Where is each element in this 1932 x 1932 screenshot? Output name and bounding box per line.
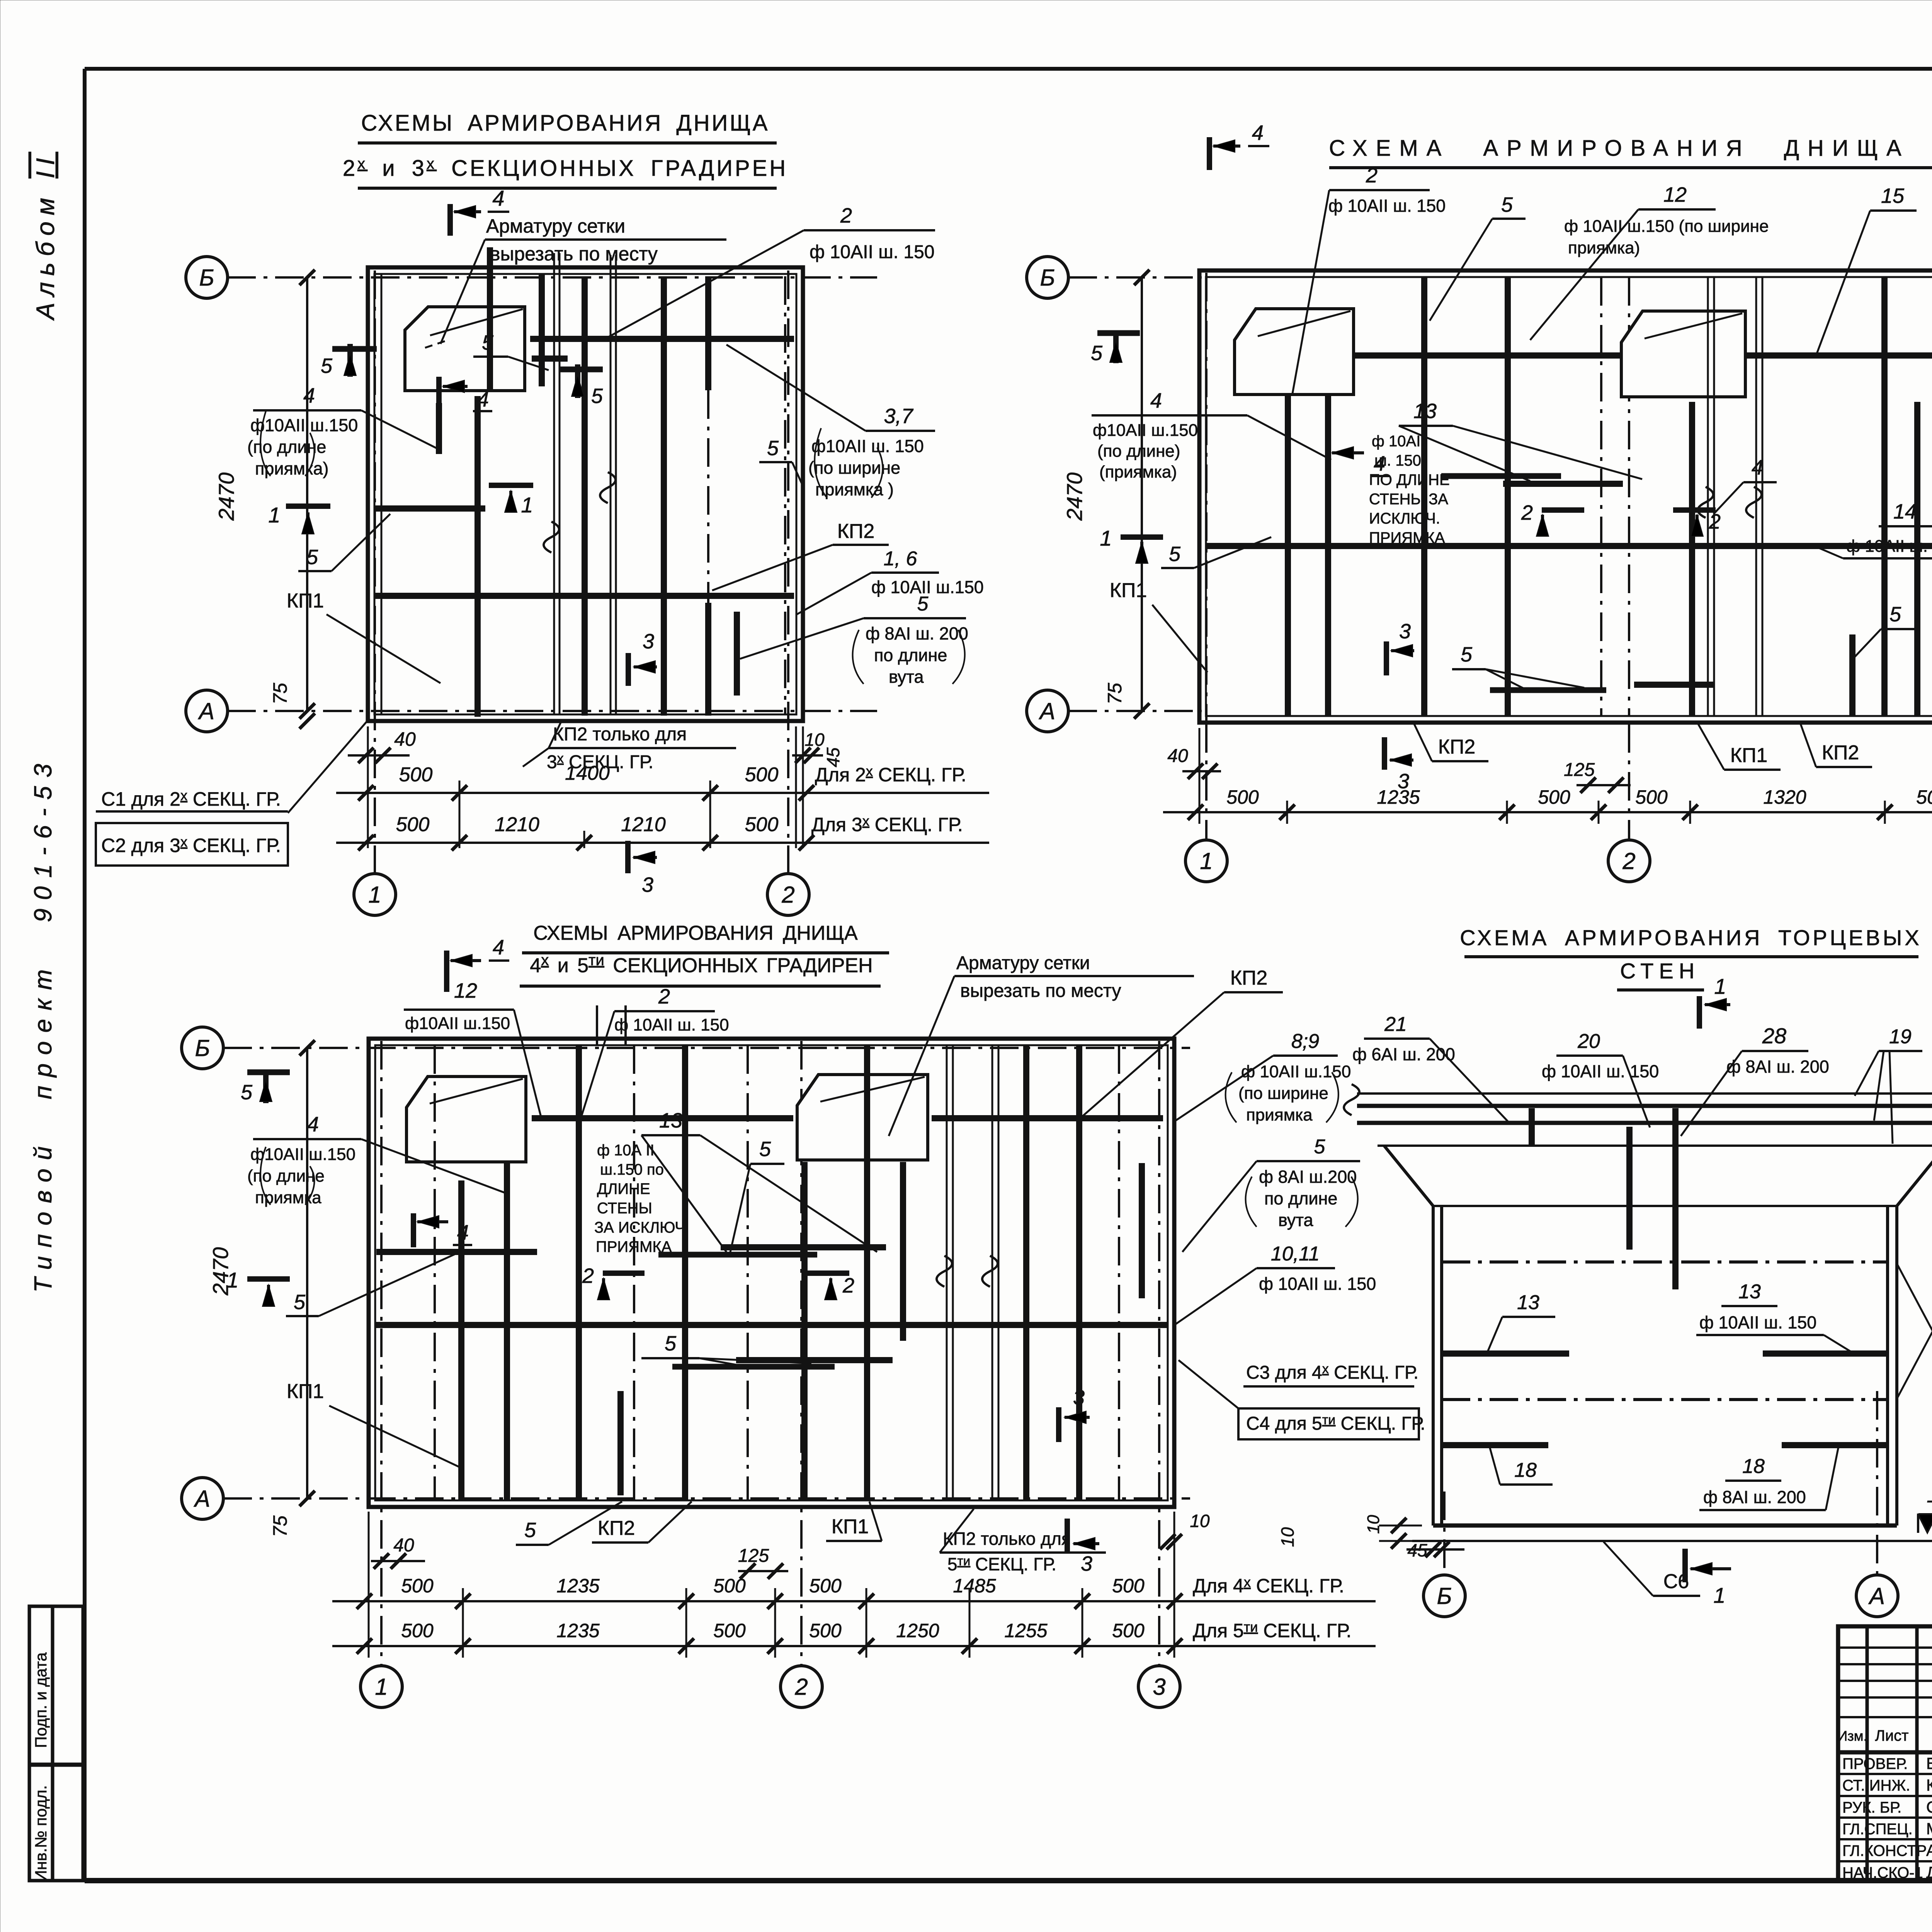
svg-text:21: 21 [1384, 1013, 1407, 1036]
diagram 4 section mark 1 top [1697, 996, 1702, 1029]
svg-text:500: 500 [745, 764, 779, 786]
diagram 1 mesh bar through pit [487, 247, 493, 389]
svg-text:ф10АII ш.150: ф10АII ш.150 [405, 1014, 510, 1033]
svg-text:4: 4 [493, 936, 504, 959]
svg-text:Б: Б [1437, 1583, 1452, 1609]
diagram 2 dim extension lines [1286, 801, 1288, 824]
diagram 2 grid line А [1068, 710, 1202, 712]
svg-text:ВОЛКОВА: ВОЛКОВА [1926, 1754, 1932, 1772]
diagram 4 grid bubble А [1856, 1575, 1898, 1617]
svg-text:2х и 3х СЕКЦИОННЫХ ГРАДИРЕН: 2х и 3х СЕКЦИОННЫХ ГРАДИРЕН [343, 155, 788, 181]
svg-text:1: 1 [521, 493, 533, 517]
svg-text:С3 для 4х СЕКЦ. ГР.: С3 для 4х СЕКЦ. ГР. [1246, 1362, 1418, 1383]
svg-text:4: 4 [307, 1113, 319, 1136]
svg-text:ф 10АII ш. 150: ф 10АII ш. 150 [1259, 1274, 1376, 1294]
diagram 3 plan outer wall [369, 1039, 1174, 1507]
diagram 2 grid bubble 1 [1185, 840, 1227, 882]
svg-text:приямка ): приямка ) [815, 480, 894, 499]
svg-text:15: 15 [1881, 184, 1905, 207]
svg-text:1210: 1210 [621, 813, 666, 836]
svg-text:12: 12 [1663, 183, 1687, 206]
svg-text:СХЕМА АРМИРОВАНИЯ ТОРЦЕВЫХ: СХЕМА АРМИРОВАНИЯ ТОРЦЕВЫХ [1460, 925, 1922, 950]
diagram 3 section mark 3 bottom [1065, 1519, 1070, 1553]
diagram 2 section mark 3 bottom [1382, 737, 1387, 770]
diagram 1 section mark 5 mid [575, 364, 580, 398]
svg-text:Инв.№ подл.: Инв.№ подл. [32, 1785, 50, 1882]
svg-text:2: 2 [582, 1264, 594, 1287]
svg-text:125: 125 [1564, 760, 1595, 780]
svg-text:10: 10 [1277, 1527, 1298, 1547]
svg-text:ф 8АI ш. 200: ф 8АI ш. 200 [866, 624, 968, 643]
diagram 1 section mark 5 left [347, 344, 353, 377]
svg-text:(по ширине: (по ширине [808, 458, 900, 478]
svg-text:13: 13 [1738, 1281, 1761, 1303]
svg-text:500: 500 [713, 1575, 746, 1597]
svg-text:Лист: Лист [1875, 1727, 1909, 1744]
svg-text:1: 1 [1713, 1583, 1725, 1607]
svg-text:ф 10АII ш. 150: ф 10АII ш. 150 [1542, 1061, 1659, 1081]
diagram 3 dim row Для 5ти [332, 1645, 1376, 1647]
svg-text:1255: 1255 [1004, 1620, 1047, 1641]
diagram 1 section mark 1 mid [489, 483, 533, 488]
svg-text:1: 1 [1200, 848, 1213, 874]
title block revision table verticals [1866, 1626, 1869, 1881]
svg-text:Для 4х СЕКЦ. ГР.: Для 4х СЕКЦ. ГР. [1193, 1574, 1344, 1597]
diagram 4 bottom slab [1433, 1524, 1897, 1528]
diagram 1 rebar horizontals [530, 336, 794, 342]
svg-text:КП2 только для: КП2 только для [943, 1529, 1071, 1549]
diagram 3 formwork dashdot verticals [434, 1045, 436, 1500]
svg-text:ИСКЛЮЧ.: ИСКЛЮЧ. [1369, 510, 1440, 527]
svg-text:ф 10АII ш. 150: ф 10АII ш. 150 [614, 1015, 729, 1034]
diagram 2 pit polygon 1 [1235, 309, 1354, 395]
diagram 3 section marks 2 [603, 1270, 645, 1276]
svg-text:ПРИЯМКА: ПРИЯМКА [596, 1238, 672, 1255]
diagram 1 grid line 1 [374, 270, 376, 873]
svg-text:4: 4 [1252, 121, 1264, 145]
svg-text:приямка: приямка [1246, 1105, 1313, 1124]
svg-text:5: 5 [767, 437, 779, 460]
svg-text:500: 500 [1226, 786, 1259, 808]
svg-text:500: 500 [401, 1620, 434, 1641]
svg-text:5: 5 [665, 1332, 677, 1355]
diagram 2 section marks 2 [1542, 507, 1584, 513]
diagram 2 dim row [1163, 811, 1932, 813]
svg-text:Для 3х СЕКЦ. ГР.: Для 3х СЕКЦ. ГР. [811, 813, 963, 835]
svg-text:75: 75 [1104, 683, 1126, 704]
diagram 3 grid line А [223, 1497, 1190, 1500]
svg-text:РУК. БР.: РУК. БР. [1842, 1799, 1901, 1816]
svg-text:10: 10 [1190, 1511, 1210, 1531]
svg-text:13: 13 [1413, 400, 1437, 423]
svg-text:4: 4 [303, 384, 315, 407]
svg-text:ф 10АII ш. 150: ф 10АII ш. 150 [810, 242, 935, 262]
svg-text:ф10АII ш. 150: ф10АII ш. 150 [811, 436, 924, 456]
svg-text:Арматуру сетки: Арматуру сетки [486, 215, 625, 237]
svg-text:С2 для 3х СЕКЦ. ГР.: С2 для 3х СЕКЦ. ГР. [101, 834, 281, 856]
svg-text:С4 для 5ти СЕКЦ. ГР.: С4 для 5ти СЕКЦ. ГР. [1246, 1413, 1425, 1434]
diagram 2 grid line 2 [1628, 724, 1630, 840]
svg-text:3: 3 [1399, 620, 1411, 643]
svg-text:75: 75 [269, 1515, 291, 1537]
diagram 2 dimension 2470 [1141, 277, 1143, 711]
svg-text:КП2: КП2 [1822, 742, 1859, 764]
diagram 4 grid bubble Б [1423, 1575, 1465, 1617]
svg-text:500: 500 [1916, 786, 1932, 808]
svg-text:2: 2 [842, 1274, 854, 1297]
svg-text:ДЛИНЕ: ДЛИНЕ [597, 1180, 650, 1197]
svg-text:5: 5 [1314, 1136, 1326, 1158]
svg-text:500: 500 [745, 813, 779, 836]
svg-text:2: 2 [1622, 848, 1635, 874]
svg-text:1485: 1485 [953, 1575, 996, 1597]
svg-text:ф 8АI ш. 200: ф 8АI ш. 200 [1726, 1057, 1829, 1077]
svg-text:14: 14 [1893, 500, 1917, 523]
svg-text:3: 3 [1153, 1674, 1165, 1700]
svg-text:1: 1 [1100, 526, 1112, 550]
svg-text:А: А [194, 1486, 210, 1512]
svg-text:500: 500 [1112, 1575, 1145, 1597]
svg-text:18: 18 [1742, 1455, 1765, 1478]
diagram 3 section mark 4 inner [411, 1213, 416, 1247]
svg-text:Для 2х СЕКЦ. ГР.: Для 2х СЕКЦ. ГР. [815, 763, 966, 786]
svg-text:КП2 только для: КП2 только для [553, 724, 687, 745]
svg-text:СТ. ИНЖ.: СТ. ИНЖ. [1842, 1777, 1910, 1794]
svg-text:КП1: КП1 [287, 1380, 324, 1403]
diagram 2 grid bubble Б [1027, 257, 1068, 298]
svg-text:1250: 1250 [896, 1620, 939, 1641]
svg-text:Б: Б [199, 265, 214, 291]
svg-text:ГЛ.СПЕЦ.: ГЛ.СПЕЦ. [1842, 1821, 1913, 1838]
diagram 3 grid bubble А [182, 1478, 223, 1519]
svg-text:5: 5 [591, 384, 603, 408]
left margin: attribute boxes Инв/Подп [29, 1606, 83, 1881]
svg-text:С6: С6 [1663, 1570, 1689, 1593]
svg-text:1: 1 [375, 1674, 388, 1700]
svg-text:28: 28 [1762, 1024, 1786, 1048]
svg-text:40: 40 [1167, 746, 1188, 766]
diagram 1 dim row Для 3х [336, 842, 989, 844]
diagram 3 grid bubble 1 [361, 1666, 402, 1708]
svg-text:5: 5 [1169, 543, 1181, 566]
diagram 3 grid bubble 2 [781, 1666, 822, 1708]
svg-text:КП2: КП2 [837, 520, 875, 543]
svg-text:19: 19 [1889, 1026, 1912, 1048]
svg-text:2: 2 [1521, 501, 1533, 524]
svg-text:5: 5 [1461, 643, 1473, 666]
diagram 1 grid bubble А [186, 690, 228, 732]
svg-text:5: 5 [306, 546, 318, 569]
diagram 1 formwork verticals [381, 274, 383, 714]
diagram 2 left callouts [1097, 330, 1140, 336]
svg-text:500: 500 [809, 1575, 842, 1597]
diagram 4 dashdot joints [1442, 1260, 1888, 1264]
svg-text:ш. 150: ш. 150 [1374, 452, 1421, 469]
svg-text:ф 10АII ш.150 (по ширине: ф 10АII ш.150 (по ширине [1564, 217, 1769, 236]
svg-text:1235: 1235 [556, 1620, 599, 1641]
svg-text:КП1: КП1 [1730, 744, 1768, 767]
diagram 1 extension verticals for dims [367, 726, 369, 848]
diagram 3 grid line 2 [800, 1041, 803, 1665]
diagram 4 section mark 1 bottom [1682, 1549, 1688, 1582]
svg-text:13: 13 [659, 1109, 682, 1132]
svg-text:75: 75 [269, 683, 291, 704]
diagram 2 plan outer wall [1199, 270, 1932, 723]
svg-text:1320: 1320 [1763, 786, 1806, 808]
svg-text:5: 5 [241, 1081, 253, 1104]
diagram 2 grid bubble 2 [1608, 840, 1650, 882]
svg-text:вырезать по месту: вырезать по месту [490, 243, 658, 265]
svg-text:Альбом II: Альбом II [31, 152, 60, 321]
svg-text:А: А [198, 698, 214, 724]
svg-text:500: 500 [1112, 1620, 1145, 1641]
diagram 3 top callout: 4 mark + 12 [444, 951, 449, 992]
svg-text:5: 5 [321, 354, 333, 378]
svg-text:КП1: КП1 [832, 1515, 869, 1538]
diagram 1 grid line 2 [787, 270, 789, 873]
svg-text:40: 40 [393, 1535, 414, 1556]
svg-text:1: 1 [226, 1268, 238, 1292]
diagram 1 section mark 4 top [447, 204, 453, 236]
svg-text:СТЕН: СТЕН [1620, 959, 1700, 983]
diagram 3 dim extension lines [462, 1588, 464, 1658]
svg-text:10: 10 [804, 730, 825, 750]
diagram 1 plan outer wall [368, 267, 803, 721]
diagram 2 section mark 1 left [1121, 534, 1163, 540]
diagram 2 grid line 1 [1205, 724, 1207, 840]
svg-text:2: 2 [1366, 164, 1378, 187]
diagram 3 pit polygon 2 [797, 1075, 928, 1160]
svg-text:500: 500 [713, 1620, 746, 1641]
diagram 1 section mark 3 inner [626, 653, 631, 686]
svg-text:ПО ДЛИНЕ: ПО ДЛИНЕ [1369, 471, 1450, 488]
diagram 3 mesh splice double lines [946, 1045, 948, 1500]
diagram 1 dim row Для 2х [336, 792, 989, 794]
svg-text:КП2: КП2 [1438, 736, 1476, 758]
svg-text:500: 500 [1538, 786, 1570, 808]
diagram 3 grid bubble 3 [1138, 1666, 1180, 1708]
diagram 3 left section mark 5 [247, 1070, 290, 1075]
svg-text:5: 5 [759, 1138, 771, 1161]
svg-text:КП1: КП1 [1110, 579, 1147, 602]
svg-text:Типовой проект 901-6-53: Типовой проект 901-6-53 [29, 755, 57, 1293]
diagram 4 vertical bars from beam [1626, 1127, 1633, 1250]
svg-text:ГЛ.КОНСТР: ГЛ.КОНСТР [1842, 1842, 1927, 1859]
diagram 1 grid line А [227, 710, 877, 712]
svg-text:ЗА ИСКЛЮЧ.: ЗА ИСКЛЮЧ. [594, 1219, 689, 1236]
diagram 2 rebar horizontals [1354, 352, 1621, 359]
svg-text:Изм.: Изм. [1837, 1728, 1867, 1744]
svg-text:вута: вута [889, 667, 924, 687]
svg-text:13: 13 [1517, 1291, 1539, 1314]
svg-text:ф 8АI ш. 200: ф 8АI ш. 200 [1703, 1487, 1806, 1507]
svg-text:ДРАМПОВ: ДРАМПОВ [1926, 1863, 1932, 1881]
diagram 3 dim row Для 4х [332, 1600, 1376, 1602]
svg-text:2: 2 [840, 204, 852, 227]
diagram 2 section mark 3 inner [1384, 641, 1389, 675]
svg-text:по длине: по длине [874, 645, 947, 665]
diagram 3 grid bubble Б [182, 1027, 223, 1069]
diagram 1 pit polygon [405, 307, 525, 391]
diagram 2 grid line Б [1068, 276, 1202, 279]
svg-text:КЛИМОВ: КЛИМОВ [1926, 1776, 1932, 1794]
svg-text:500: 500 [1635, 786, 1668, 808]
diagram 3 grid line 3 [1158, 1041, 1160, 1665]
svg-text:Подп. и дата: Подп. и дата [32, 1652, 50, 1748]
svg-text:3: 3 [643, 630, 654, 653]
diagram 2 pit polygon 2 [1621, 311, 1745, 397]
svg-text:Б: Б [195, 1035, 210, 1061]
svg-text:ф 8АI ш.200: ф 8АI ш.200 [1259, 1167, 1357, 1187]
diagram 1 mesh splice double line a [553, 253, 555, 714]
diagram 4 wall outline [1432, 1206, 1435, 1526]
svg-text:4: 4 [477, 388, 489, 411]
svg-text:5: 5 [482, 331, 494, 354]
diagram 3 mesh leader verticals above plan [596, 1005, 598, 1045]
svg-text:40: 40 [394, 728, 416, 750]
svg-text:500: 500 [401, 1575, 434, 1597]
svg-text:1: 1 [368, 882, 381, 908]
svg-text:ф10АII ш.150: ф10АII ш.150 [250, 415, 358, 435]
svg-text:10,11: 10,11 [1271, 1243, 1320, 1265]
svg-text:Для 5ти СЕКЦ. ГР.: Для 5ти СЕКЦ. ГР. [1193, 1619, 1352, 1641]
svg-text:5: 5 [1091, 342, 1103, 365]
svg-text:приямка): приямка) [1568, 238, 1640, 257]
diagram 1 grid line Б [227, 276, 877, 279]
diagram 3 plan inner wall [375, 1045, 1168, 1500]
svg-text:вырезать по месту: вырезать по месту [960, 981, 1121, 1001]
svg-text:5: 5 [524, 1519, 536, 1542]
diagram 3 grid line Б [223, 1047, 1190, 1049]
svg-text:ф 10АII ш. 150: ф 10АII ш. 150 [1846, 537, 1932, 556]
svg-text:18: 18 [1514, 1459, 1537, 1481]
svg-text:А: А [1868, 1583, 1885, 1609]
svg-text:СХЕМЫ АРМИРОВАНИЯ ДНИЩА: СХЕМЫ АРМИРОВАНИЯ ДНИЩА [533, 922, 858, 944]
diagram 1 plan inner wall [374, 274, 796, 714]
svg-text:МАРЕК: МАРЕК [1926, 1820, 1932, 1838]
title block revision rows [1838, 1646, 1932, 1649]
svg-text:4: 4 [1150, 389, 1162, 412]
svg-text:ф 10АII ш. 150: ф 10АII ш. 150 [1328, 196, 1446, 216]
diagram 2 rebar verticals [1285, 395, 1291, 716]
svg-text:3: 3 [1081, 1552, 1092, 1575]
diagram 2 grid bubble А [1027, 690, 1068, 732]
svg-text:ф 10А II: ф 10А II [597, 1142, 655, 1159]
svg-text:ф 10АII: ф 10АII [1372, 433, 1425, 450]
svg-text:А: А [1039, 698, 1055, 724]
diagram 1 mesh splice double line b [610, 255, 612, 714]
svg-text:5: 5 [917, 593, 929, 615]
diagram 3 grid line 1 [380, 1041, 383, 1665]
svg-text:5: 5 [294, 1291, 306, 1314]
diagram 1 section mark 3 bottom [625, 841, 631, 873]
diagram 4 rebar 13 bars [1442, 1350, 1569, 1357]
svg-text:1210: 1210 [495, 813, 539, 836]
diagram 3 section mark 3 inner [1056, 1407, 1061, 1442]
diagram 1 grid bubble 1 [354, 874, 396, 915]
diagram 4 rebar 18 bars [1442, 1442, 1548, 1448]
diagram 2 section mark 4 top-left [1207, 137, 1212, 170]
svg-text:КП1: КП1 [287, 590, 324, 612]
svg-text:3: 3 [1073, 1386, 1085, 1409]
diagram 3 rebar horizontals [532, 1115, 793, 1121]
svg-text:КП2: КП2 [1230, 967, 1268, 989]
svg-text:500: 500 [399, 764, 433, 786]
svg-text:1: 1 [268, 503, 280, 527]
svg-text:4: 4 [492, 186, 504, 210]
svg-text:ПРОВЕР.: ПРОВЕР. [1842, 1755, 1908, 1772]
svg-text:1235: 1235 [556, 1575, 599, 1597]
svg-text:10: 10 [1364, 1515, 1383, 1534]
svg-text:4х и 5ти СЕКЦИОННЫХ ГРАДИРЕН: 4х и 5ти СЕКЦИОННЫХ ГРАДИРЕН [530, 952, 872, 977]
svg-text:(по ширине: (по ширине [1238, 1084, 1328, 1103]
svg-text:4: 4 [1752, 456, 1763, 479]
svg-text:2470: 2470 [214, 473, 238, 521]
svg-text:2: 2 [794, 1674, 808, 1700]
diagram 1 section mark 4 inner [436, 377, 442, 409]
svg-text:3: 3 [642, 873, 653, 896]
svg-text:КП2: КП2 [598, 1517, 635, 1539]
svg-text:С1 для 2х СЕКЦ. ГР.: С1 для 2х СЕКЦ. ГР. [101, 787, 281, 810]
svg-text:СТЕНЫ: СТЕНЫ [597, 1200, 652, 1217]
svg-text:3,7: 3,7 [884, 405, 913, 428]
svg-text:2: 2 [781, 882, 794, 908]
diagram 4 top beam lines [1357, 1092, 1932, 1095]
svg-text:1400: 1400 [565, 762, 610, 784]
diagram 3 dimension 2470 [306, 1048, 308, 1498]
svg-text:ф10АII ш.150: ф10АII ш.150 [1093, 421, 1198, 440]
svg-text:ф 10АII ш. 150: ф 10АII ш. 150 [1699, 1313, 1816, 1332]
diagram 1 rebar verticals [436, 403, 442, 454]
svg-text:(приямка): (приямка) [1099, 463, 1177, 481]
svg-text:АВРАМЕНКО: АВРАМЕНКО [1926, 1841, 1932, 1859]
svg-text:2470: 2470 [1062, 473, 1087, 521]
svg-text:СХЕМЫ АРМИРОВАНИЯ ДНИЩА: СХЕМЫ АРМИРОВАНИЯ ДНИЩА [361, 111, 770, 136]
svg-text:приямка: приямка [255, 1188, 321, 1207]
svg-text:САСОНКО: САСОНКО [1926, 1798, 1932, 1816]
svg-text:СХЕМА АРМИРОВАНИЯ ДНИЩА 6ти: СХЕМА АРМИРОВАНИЯ ДНИЩА 6ти СЕКЦИОННОЙ Г… [1329, 135, 1932, 161]
svg-text:5: 5 [1501, 193, 1513, 216]
diagram 3 pit polygon 1 [406, 1077, 526, 1162]
diagram 2 formwork dashdot verticals [1600, 277, 1602, 716]
diagram 3 rebar verticals [458, 1180, 464, 1500]
svg-text:2: 2 [658, 985, 670, 1008]
svg-text:(по длине: (по длине [247, 1167, 325, 1185]
svg-text:20: 20 [1577, 1030, 1600, 1053]
svg-text:5: 5 [1889, 603, 1901, 626]
svg-text:Арматуру сетки: Арматуру сетки [956, 953, 1090, 973]
svg-text:12: 12 [454, 979, 477, 1002]
svg-text:НАЧ.СКО-1: НАЧ.СКО-1 [1842, 1864, 1923, 1881]
svg-text:4: 4 [457, 1221, 469, 1244]
title block outer [1838, 1626, 1932, 1881]
svg-text:Б: Б [1040, 265, 1055, 291]
svg-text:ш.150 по: ш.150 по [600, 1161, 664, 1178]
diagram 2 plan inner wall [1206, 277, 1932, 716]
svg-text:- 2.200: - 2.200 [1926, 1489, 1932, 1512]
diagram 3 section mark 1 + 5 [247, 1276, 290, 1282]
svg-text:СТЕНЫ ЗА: СТЕНЫ ЗА [1369, 491, 1448, 508]
svg-text:по длине: по длине [1264, 1189, 1337, 1208]
svg-text:500: 500 [396, 813, 430, 836]
diagram 1 grid bubble 2 [767, 874, 809, 915]
diagram 2 mesh splice double lines [1707, 277, 1709, 716]
svg-text:500: 500 [809, 1620, 842, 1641]
svg-text:8;9: 8;9 [1291, 1030, 1319, 1053]
svg-text:1: 1 [1714, 974, 1726, 998]
diagram 4 grid risers [1443, 1492, 1446, 1575]
svg-text:вута: вута [1278, 1210, 1314, 1230]
